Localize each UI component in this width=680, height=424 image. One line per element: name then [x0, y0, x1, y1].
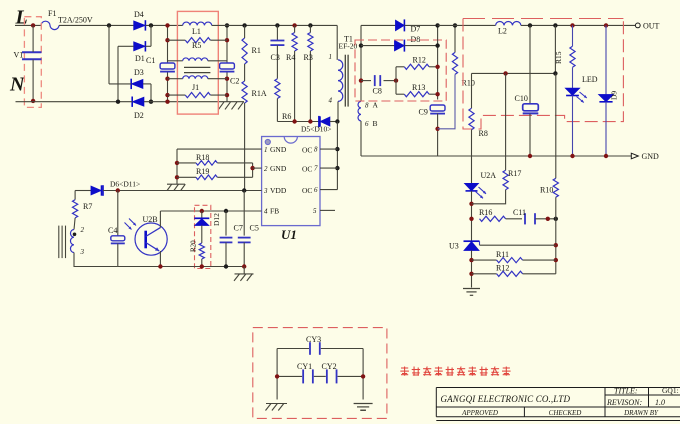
- aux core: [59, 226, 66, 259]
- note optional-components (red): [400, 367, 510, 376]
- wire: [145, 24, 182, 26]
- junction: [604, 23, 608, 27]
- svg-text:U1: U1: [281, 227, 297, 242]
- wire: [277, 121, 319, 123]
- junction: [165, 38, 169, 42]
- capacitor C4: [108, 191, 125, 267]
- svg-text:R19: R19: [196, 167, 209, 176]
- junction: [225, 23, 229, 27]
- junction: [275, 23, 279, 27]
- svg-text:D12: D12: [212, 213, 221, 226]
- shunt ref U3: [449, 241, 480, 250]
- wire: [118, 266, 244, 268]
- svg-text:C2: C2: [230, 77, 239, 86]
- resistor R4: [286, 25, 297, 121]
- junction: [554, 243, 558, 247]
- capacitor C10: [515, 25, 539, 156]
- junction: [292, 23, 296, 27]
- svg-text:D5<D10>: D5<D10>: [301, 124, 332, 133]
- capacitor C11: [506, 208, 556, 224]
- svg-text:D3: D3: [134, 68, 144, 77]
- wire: [59, 24, 134, 26]
- capacitor C2: [220, 63, 240, 86]
- svg-text:D7: D7: [411, 25, 421, 34]
- wire: [109, 83, 131, 85]
- wire: [361, 155, 631, 157]
- svg-text:FB: FB: [270, 207, 279, 216]
- junction: [435, 127, 439, 131]
- capacitor CY2: [314, 362, 363, 383]
- title text 1.0: [655, 398, 665, 407]
- node L: [15, 7, 28, 29]
- resistor R8: [469, 73, 488, 183]
- title text DRAWN BY: [623, 409, 659, 417]
- junction: [359, 43, 363, 47]
- ground: [266, 404, 288, 411]
- wire: [471, 191, 473, 241]
- svg-text:R1A: R1A: [252, 89, 267, 98]
- op-amp U1 body: [262, 137, 320, 226]
- svg-text:L1: L1: [192, 27, 201, 36]
- transformer T1 core: [345, 55, 348, 107]
- ground: [354, 404, 373, 411]
- svg-text:4: 4: [264, 208, 268, 216]
- title text company: [441, 394, 571, 404]
- svg-text:2: 2: [81, 226, 85, 234]
- wire: [177, 148, 262, 150]
- resistor J1-R: [168, 93, 228, 98]
- svg-text:R4: R4: [286, 53, 295, 62]
- wire: [320, 209, 335, 211]
- junction: [335, 166, 339, 170]
- diode D9: [598, 25, 618, 156]
- junction: [225, 93, 229, 97]
- junction: [165, 77, 169, 81]
- svg-text:C4: C4: [108, 226, 117, 235]
- wire: [159, 251, 161, 267]
- svg-text:7: 7: [314, 165, 318, 173]
- resistor R1A: [242, 64, 267, 191]
- svg-text:F1: F1: [48, 9, 56, 18]
- wire: [320, 167, 337, 169]
- resistor R10a: [438, 25, 475, 128]
- junction: [242, 264, 246, 268]
- resistor R13: [396, 83, 438, 97]
- wire: [212, 24, 338, 26]
- capacitor C9: [419, 105, 446, 117]
- svg-text:C5: C5: [250, 224, 259, 233]
- wire: [167, 72, 169, 102]
- label C1: [146, 56, 155, 65]
- diode D3: [131, 68, 144, 89]
- label EF-20: [339, 42, 358, 51]
- wire: [554, 25, 556, 73]
- junction: [242, 188, 246, 192]
- optocoupler U2A: [464, 171, 496, 198]
- wire: [555, 219, 557, 274]
- svg-text:2: 2: [264, 165, 268, 173]
- wire: [150, 84, 152, 102]
- junction: [107, 23, 111, 27]
- svg-text:R1: R1: [252, 46, 261, 55]
- label T1: [344, 35, 353, 44]
- svg-text:CY1: CY1: [297, 362, 312, 371]
- junction: [200, 209, 204, 213]
- junction: [31, 23, 35, 27]
- varistor V1: [14, 17, 42, 108]
- diode D6: [75, 180, 140, 196]
- ground: [234, 267, 254, 281]
- diode D1: [134, 41, 146, 63]
- optional box CY: [253, 328, 387, 419]
- junction: [175, 175, 179, 179]
- svg-text:GQ1:: GQ1:: [662, 386, 679, 395]
- resistor R15: [554, 25, 575, 88]
- wire: [572, 96, 574, 157]
- wire: [438, 24, 496, 26]
- wire: [144, 101, 244, 103]
- svg-text:T2A/250V: T2A/250V: [58, 16, 93, 25]
- node N: [9, 74, 26, 96]
- transistor U2B: [125, 215, 168, 255]
- title text GQ1: [662, 386, 679, 395]
- choke J1 winding A: [168, 58, 228, 61]
- resistor R16: [479, 208, 506, 221]
- wire: [167, 25, 169, 62]
- wire: [395, 67, 397, 94]
- svg-text:C8: C8: [373, 87, 382, 96]
- svg-text:R8: R8: [479, 129, 488, 138]
- title block frame: [436, 388, 680, 421]
- junction: [165, 100, 169, 104]
- junction: [224, 209, 228, 213]
- svg-text:B: B: [373, 119, 378, 128]
- svg-text:D4: D4: [134, 10, 144, 19]
- svg-text:V1: V1: [14, 51, 24, 60]
- junction: [158, 264, 162, 268]
- junction: [149, 100, 153, 104]
- junction: [224, 264, 228, 268]
- svg-text:4: 4: [329, 97, 333, 105]
- wire: [16, 101, 133, 103]
- svg-text:OC: OC: [302, 186, 312, 195]
- wire: [118, 45, 134, 47]
- capacitor C1: [160, 63, 175, 72]
- svg-text:VDD: VDD: [270, 186, 287, 195]
- junction: [308, 23, 312, 27]
- svg-text:R13: R13: [412, 83, 425, 92]
- resistor R1: [242, 25, 261, 64]
- svg-text:8: 8: [365, 102, 369, 110]
- svg-text:D2: D2: [134, 111, 144, 120]
- wire: [521, 24, 636, 26]
- optional box D8 snubber: [355, 40, 446, 101]
- junction: [250, 166, 254, 170]
- junction: [275, 374, 279, 378]
- capacitor C5: [238, 191, 259, 267]
- svg-text:OC: OC: [302, 165, 312, 174]
- junction: [165, 93, 169, 97]
- svg-text:3: 3: [80, 248, 85, 256]
- junction: [31, 99, 35, 103]
- title text TITLE: [614, 387, 638, 396]
- diode D7: [361, 19, 438, 33]
- svg-text:R17: R17: [508, 169, 521, 178]
- wire: [276, 349, 278, 400]
- wire: [480, 244, 556, 246]
- optional box D12: [195, 205, 211, 268]
- junction: [116, 100, 120, 104]
- junction: [165, 23, 169, 27]
- svg-text:CY2: CY2: [322, 362, 337, 371]
- wire: [360, 121, 362, 156]
- junction: [435, 43, 439, 47]
- svg-text:R3: R3: [304, 53, 313, 62]
- svg-text:R7: R7: [83, 202, 92, 211]
- svg-text:5: 5: [313, 207, 317, 215]
- junction: [469, 217, 473, 221]
- junction: [359, 78, 363, 82]
- svg-text:6: 6: [365, 120, 369, 128]
- wire: [360, 25, 362, 101]
- resistor R20: [189, 240, 204, 267]
- junction: [553, 23, 557, 27]
- junction: [225, 38, 229, 42]
- svg-text:D6<D11>: D6<D11>: [110, 180, 140, 189]
- junction: [335, 147, 339, 151]
- transformer T1 secondary: [358, 101, 378, 129]
- junction: [503, 71, 507, 75]
- wire: [145, 45, 151, 47]
- inductor L2: [496, 22, 521, 36]
- svg-text:R6: R6: [282, 112, 291, 121]
- resistor R7: [73, 191, 93, 218]
- junction: [361, 374, 365, 378]
- svg-text:J1: J1: [192, 83, 199, 92]
- wire: [150, 25, 152, 46]
- capacitor CY3: [277, 335, 363, 355]
- junction: [435, 23, 439, 27]
- junction: [570, 23, 574, 27]
- wire: [471, 250, 473, 287]
- wire: [337, 101, 339, 121]
- svg-text:R18: R18: [196, 153, 209, 162]
- wire: [253, 167, 262, 169]
- choke J1 core: [184, 67, 210, 72]
- svg-text:C3: C3: [271, 53, 280, 62]
- junction: [308, 119, 312, 123]
- svg-text:C11: C11: [513, 208, 526, 217]
- junction: [335, 119, 339, 123]
- resistor R6: [275, 79, 292, 122]
- svg-text:DRAWN BY: DRAWN BY: [623, 409, 659, 417]
- wire: [103, 190, 262, 192]
- junction: [200, 264, 204, 268]
- wire: [437, 25, 439, 99]
- resistor R12b: [472, 264, 556, 277]
- title text REVISON: [606, 398, 642, 407]
- junction: [554, 217, 558, 221]
- svg-text:R12: R12: [496, 264, 509, 273]
- svg-text:LED: LED: [582, 75, 598, 84]
- junction: [116, 188, 120, 192]
- zener D12: [194, 211, 221, 243]
- capacitor C7: [220, 211, 243, 267]
- svg-text:CHECKED: CHECKED: [549, 409, 582, 417]
- ground: [219, 102, 244, 110]
- junction: [528, 154, 532, 158]
- svg-text:GANGQI ELECTRONIC CO.,LTD: GANGQI ELECTRONIC CO.,LTD: [441, 394, 571, 404]
- junction: [528, 23, 532, 27]
- junction: [435, 92, 439, 96]
- svg-text:TITLE:: TITLE:: [614, 387, 638, 396]
- svg-text:L2: L2: [498, 27, 507, 36]
- diode D4: [134, 10, 146, 31]
- svg-text:R16: R16: [479, 208, 492, 217]
- svg-text:8: 8: [314, 146, 318, 154]
- resistor R12: [396, 56, 438, 70]
- svg-text:N: N: [9, 74, 26, 96]
- wire: [336, 122, 338, 190]
- wire: [74, 253, 118, 267]
- wire: [437, 114, 439, 157]
- svg-text:U2B: U2B: [143, 215, 158, 224]
- resistor R19: [177, 167, 253, 180]
- wire: [320, 148, 337, 150]
- junction: [292, 119, 296, 123]
- wire: [176, 149, 178, 184]
- junction: [553, 71, 557, 75]
- svg-text:D1: D1: [135, 54, 145, 63]
- resistor R17: [472, 73, 522, 203]
- junction: [469, 202, 473, 206]
- svg-text:D9: D9: [610, 91, 619, 100]
- junction: [225, 77, 229, 81]
- svg-text:C9: C9: [419, 108, 428, 117]
- svg-text:U3: U3: [449, 242, 459, 251]
- fuse F1: [41, 9, 93, 30]
- label U1: [281, 227, 297, 242]
- capacitor CY1: [277, 362, 313, 383]
- optional box output: [463, 19, 623, 130]
- aux winding: [70, 218, 84, 256]
- svg-text:REVISON:: REVISON:: [606, 398, 642, 407]
- optional box L1/R5/J1: [177, 11, 218, 114]
- svg-text:C7: C7: [234, 224, 243, 233]
- svg-text:OUT: OUT: [643, 22, 660, 31]
- wire: [159, 211, 161, 228]
- resistor R10b: [540, 73, 558, 218]
- junction: [546, 217, 550, 221]
- terminal GND: [631, 152, 659, 161]
- svg-text:APPROVED: APPROVED: [461, 409, 498, 417]
- wire: [226, 72, 228, 102]
- ground: [167, 184, 185, 190]
- ground: [463, 289, 480, 296]
- capacitor C8: [361, 75, 396, 95]
- svg-text:1: 1: [264, 146, 268, 154]
- wire: [252, 163, 254, 177]
- svg-text:R10: R10: [540, 186, 553, 195]
- junction: [175, 161, 179, 165]
- wire: [15, 24, 41, 26]
- choke J1 winding B: [168, 76, 228, 92]
- title text APPROVED: [461, 409, 498, 417]
- wire: [472, 72, 556, 74]
- wire: [226, 25, 228, 62]
- svg-text:R11: R11: [496, 250, 509, 259]
- wire: [32, 60, 34, 101]
- resistor R18: [177, 153, 253, 165]
- diode D2: [132, 97, 144, 121]
- svg-text:GND: GND: [642, 152, 660, 161]
- svg-text:R15: R15: [554, 51, 563, 64]
- resistor R3: [304, 25, 314, 121]
- diode D5: [301, 116, 332, 133]
- svg-text:R5: R5: [192, 41, 201, 50]
- junction: [554, 258, 558, 262]
- svg-text:C1: C1: [146, 56, 155, 65]
- wire: [143, 83, 151, 85]
- junction: [394, 78, 398, 82]
- svg-text:OC: OC: [302, 146, 312, 155]
- svg-text:A: A: [373, 101, 379, 110]
- junction: [242, 23, 246, 27]
- svg-text:U2A: U2A: [481, 171, 497, 180]
- junction: [469, 272, 473, 276]
- svg-text:R12: R12: [413, 56, 426, 65]
- wire: [160, 210, 261, 212]
- junction: [570, 154, 574, 158]
- svg-text:1: 1: [329, 53, 333, 61]
- wire: [479, 241, 481, 245]
- wire: [336, 25, 338, 60]
- wire: [32, 25, 34, 52]
- wire: [117, 46, 119, 101]
- capacitor C3: [270, 25, 284, 78]
- inductor L1: [183, 22, 212, 36]
- junction: [469, 258, 473, 262]
- junction: [435, 65, 439, 69]
- svg-text:1.0: 1.0: [655, 398, 665, 407]
- junction: [149, 23, 153, 27]
- junction: [453, 23, 457, 27]
- title text CHECKED: [549, 409, 582, 417]
- svg-text:GND: GND: [270, 145, 287, 154]
- wire: [320, 189, 337, 191]
- terminal OUT: [635, 22, 659, 31]
- transformer T1 primary: [329, 53, 343, 105]
- wire: [108, 25, 110, 84]
- resistor R11: [472, 250, 556, 263]
- resistor R5: [168, 38, 228, 50]
- wire: [330, 121, 337, 123]
- svg-text:3: 3: [263, 187, 268, 195]
- svg-text:GND: GND: [270, 164, 287, 173]
- svg-text:6: 6: [314, 186, 318, 194]
- wire: [362, 349, 364, 400]
- svg-text:R20: R20: [189, 240, 197, 252]
- diode D8: [361, 35, 438, 52]
- svg-text:CY3: CY3: [306, 335, 321, 344]
- LED: [565, 75, 598, 103]
- junction: [604, 154, 608, 158]
- svg-text:C10: C10: [515, 94, 528, 103]
